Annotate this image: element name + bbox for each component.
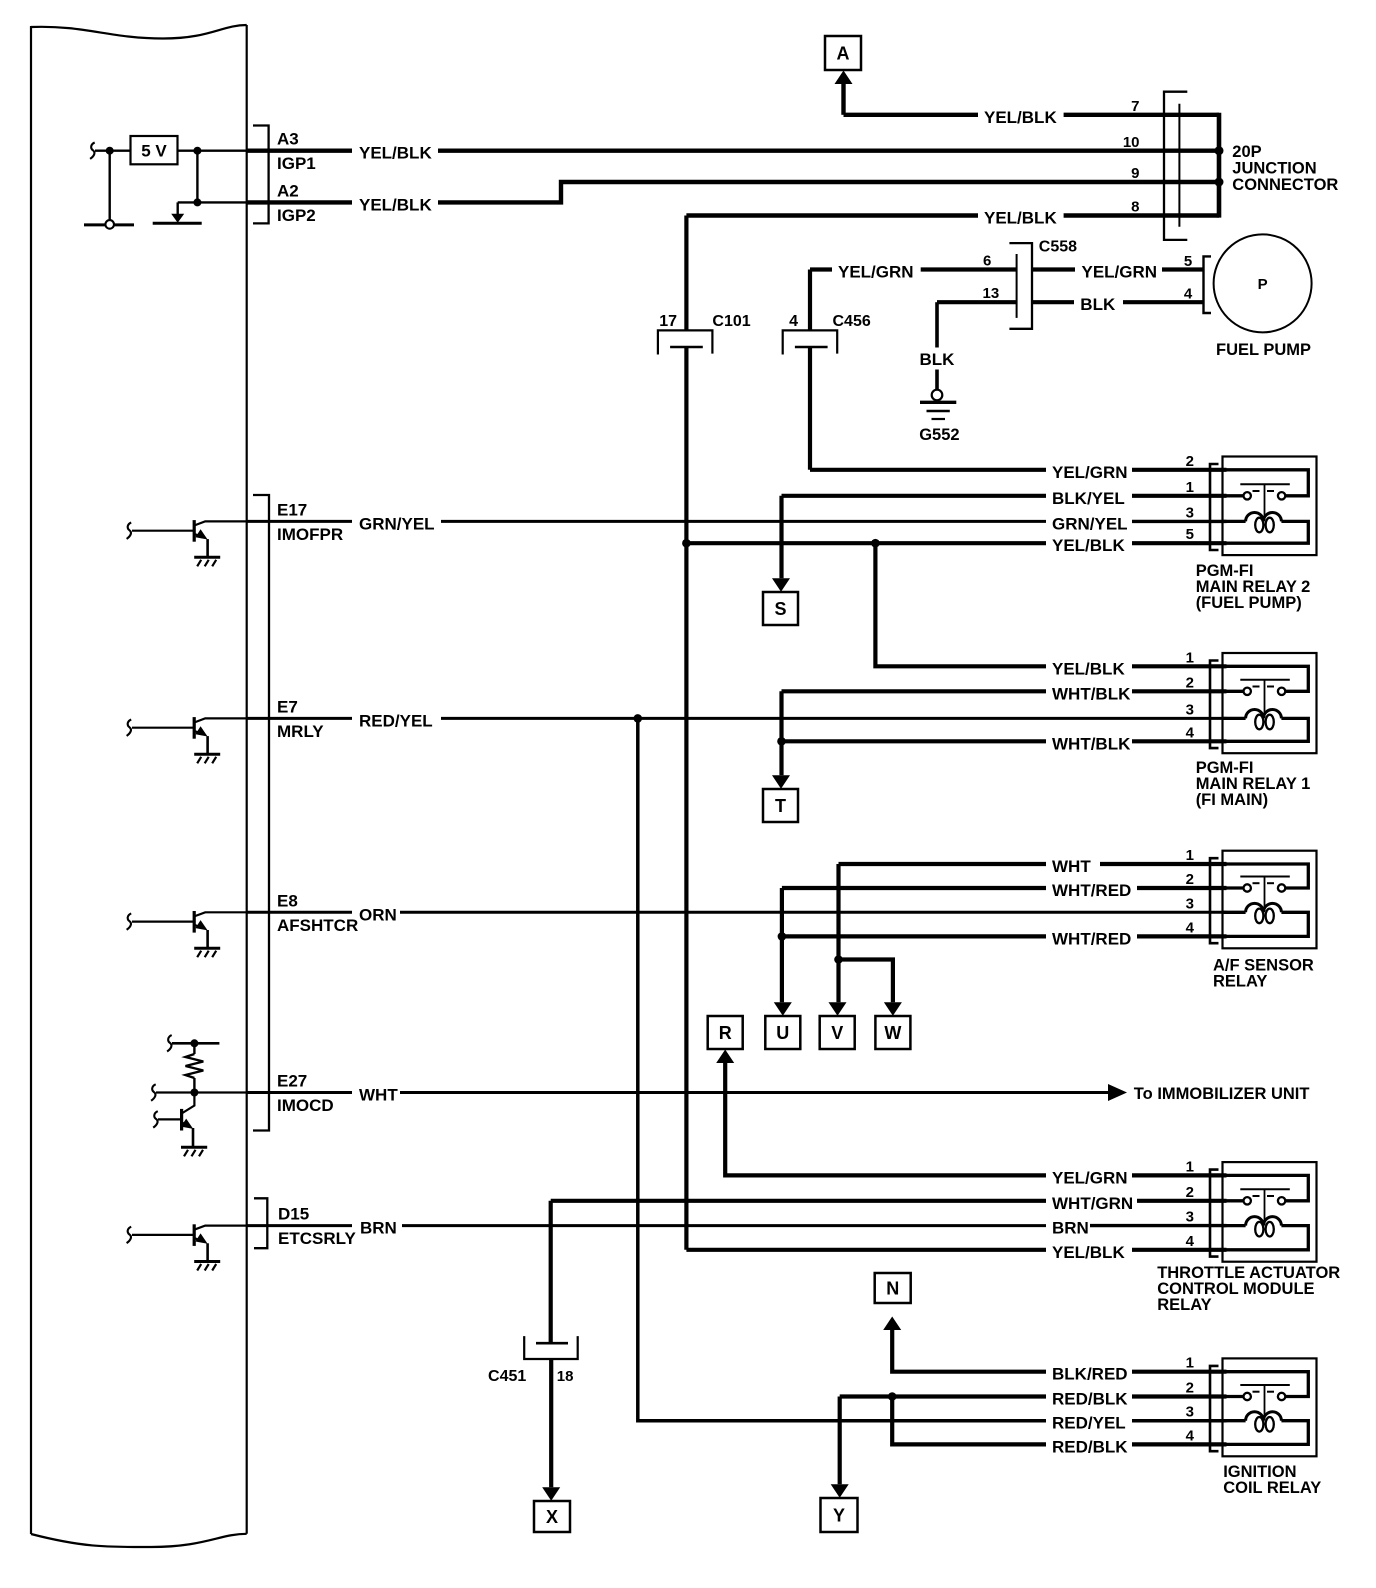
wire E27 pull-up rail — [172, 1042, 219, 1045]
svg-text:4: 4 — [1186, 724, 1195, 741]
svg-text:G552: G552 — [919, 426, 959, 444]
transistor Q4 (IMOCD driver, pin E27) — [153, 1093, 207, 1157]
svg-text:6: 6 — [983, 253, 991, 270]
svg-text:R: R — [719, 1023, 732, 1043]
svg-text:4: 4 — [1186, 919, 1195, 936]
node junction on A2 wire — [193, 198, 201, 206]
svg-text:BLK/YEL: BLK/YEL — [1052, 489, 1125, 508]
svg-text:WHT: WHT — [1052, 857, 1091, 876]
wire BLK C558 to fuel pump pin 4 — [1032, 295, 1204, 314]
svg-text:4: 4 — [789, 313, 798, 330]
svg-text:4: 4 — [1186, 1427, 1195, 1444]
relay IGNITION COIL RELAY — [1186, 1355, 1322, 1497]
wire drop RED/BLK to ref Y — [838, 1397, 842, 1485]
svg-text:MRLY: MRLY — [277, 722, 324, 741]
svg-text:17: 17 — [659, 313, 677, 330]
svg-text:WHT/BLK: WHT/BLK — [1052, 734, 1131, 753]
wire RED/BLK ignition pin 4 (label) — [1052, 1437, 1227, 1456]
svg-text:4: 4 — [1184, 286, 1193, 303]
svg-text:BLK: BLK — [920, 350, 956, 369]
transistor Q5 (ETCSRLY driver, pin D15) — [127, 1224, 248, 1270]
svg-text:10: 10 — [1123, 134, 1140, 151]
svg-text:X: X — [546, 1507, 558, 1527]
wire drop to ground 2 — [176, 202, 178, 216]
ref box R — [708, 1016, 743, 1049]
wire YEL/BLK (pin 8) from C101 column — [686, 209, 1219, 228]
svg-text:2: 2 — [1186, 674, 1194, 691]
svg-text:E17: E17 — [277, 500, 307, 519]
svg-text:18: 18 — [557, 1368, 574, 1385]
svg-text:20P: 20P — [1232, 143, 1261, 161]
wire YEL/GRN to C558 pin 6 — [810, 263, 1017, 282]
relay THROTTLE ACTUATOR CONTROL MODULE RELAY — [1157, 1158, 1340, 1314]
svg-text:WHT/GRN: WHT/GRN — [1052, 1194, 1133, 1213]
svg-text:8: 8 — [1131, 199, 1139, 216]
svg-text:E8: E8 — [277, 891, 298, 910]
svg-text:GRN/YEL: GRN/YEL — [1052, 514, 1128, 533]
svg-text:U: U — [776, 1023, 789, 1043]
svg-text:T: T — [775, 796, 786, 816]
relay PGM-FI MAIN RELAY 1 (FI MAIN) — [1186, 649, 1317, 809]
svg-text:ETCSRLY: ETCSRLY — [278, 1229, 356, 1248]
node bus pin 10 — [1215, 146, 1224, 155]
pin number 9 — [1131, 165, 1139, 182]
svg-text:5: 5 — [1186, 526, 1194, 543]
svg-text:RED/YEL: RED/YEL — [1052, 1414, 1126, 1433]
20P junction connector symbol — [1164, 92, 1187, 240]
pin E7 / MRLY label — [277, 697, 324, 741]
svg-text:To IMMOBILIZER UNIT: To IMMOBILIZER UNIT — [1134, 1085, 1310, 1103]
svg-text:9: 9 — [1131, 165, 1139, 182]
svg-text:3: 3 — [1186, 504, 1194, 521]
svg-text:YEL/BLK: YEL/BLK — [359, 144, 432, 163]
svg-text:CONNECTOR: CONNECTOR — [1232, 176, 1338, 194]
svg-text:WHT/BLK: WHT/BLK — [1052, 684, 1131, 703]
pin number 6 — [983, 253, 991, 270]
wire break hook (5V feed) — [90, 143, 95, 159]
pin E8 / AFSHTCR label — [277, 891, 358, 935]
node junction on A/F pin4 wire — [778, 932, 787, 941]
svg-text:E7: E7 — [277, 697, 298, 716]
svg-text:RELAY: RELAY — [1213, 972, 1267, 990]
wire GRN/YEL pin E17 to relay2 pin 3 — [247, 514, 1227, 533]
wire break hook (E27 pull-up rail) — [167, 1035, 172, 1051]
node junction left of 5V — [106, 147, 114, 155]
connector bracket pins A3/A2 — [253, 126, 269, 224]
wire ORN pin E8 to A/F relay pin 3 — [247, 905, 1227, 924]
svg-text:1: 1 — [1186, 1158, 1194, 1175]
svg-text:C558: C558 — [1039, 238, 1077, 255]
wire C456 column down — [808, 347, 812, 470]
arrow down into X — [542, 1487, 560, 1501]
svg-text:3: 3 — [1186, 701, 1194, 718]
svg-text:A3: A3 — [277, 130, 299, 149]
ground G552 — [919, 390, 959, 444]
ref box U — [765, 1016, 800, 1049]
node junction relay2 pin5 / relay1 pin1 branch — [871, 539, 880, 548]
arrow down into Y — [831, 1484, 849, 1498]
svg-text:BRN: BRN — [1052, 1219, 1089, 1238]
svg-text:YEL/BLK: YEL/BLK — [1052, 1243, 1125, 1262]
ref box S — [763, 592, 798, 625]
arrow onto ground 2 — [171, 214, 184, 223]
node junction right of 5V — [193, 147, 201, 155]
pin number 10 — [1123, 134, 1140, 151]
node junction C101 column / relay2 pin5 — [682, 539, 691, 548]
wire A2 YEL/BLK (pin 9) with jog — [247, 182, 1219, 214]
wire C101 column (pin8 down to throttle relay pin4) — [684, 216, 688, 1250]
svg-text:WHT/RED: WHT/RED — [1052, 929, 1131, 948]
svg-text:BLK/RED: BLK/RED — [1052, 1365, 1128, 1384]
wire drop to ref S — [779, 496, 783, 579]
node junction on relay1 pin4 wire — [777, 737, 786, 746]
svg-text:IGP2: IGP2 — [277, 206, 316, 225]
svg-text:BLK: BLK — [1080, 295, 1116, 314]
wire A2 internal — [178, 201, 248, 203]
resistor R1 (IMOCD pull-up) — [186, 1043, 204, 1092]
svg-text:RED/BLK: RED/BLK — [1052, 1390, 1128, 1409]
transistor Q2 (MRLY driver, pin E7) — [127, 717, 248, 763]
svg-text:YEL/BLK: YEL/BLK — [1052, 536, 1125, 555]
fuel pump motor P — [1214, 234, 1312, 332]
pin number 8 — [1131, 199, 1139, 216]
node junction on pull-up rail — [190, 1039, 198, 1047]
wire WHT/BLK to relay1 pin 2 — [782, 684, 1227, 703]
wire 5V feed — [95, 149, 131, 151]
wire YEL/BLK relay1 pin 1 (label) — [1052, 659, 1227, 678]
node junction RED/YEL branch — [634, 714, 643, 723]
svg-text:S: S — [774, 599, 786, 619]
svg-text:IMOFPR: IMOFPR — [277, 525, 343, 544]
arrow down into U — [774, 1002, 792, 1016]
svg-text:7: 7 — [1131, 98, 1139, 115]
wire drop WHT to V — [836, 864, 840, 1002]
wire break hook (E27 pin wire) — [151, 1084, 156, 1100]
svg-text:YEL/BLK: YEL/BLK — [359, 195, 432, 214]
svg-text:1: 1 — [1186, 649, 1194, 666]
svg-text:YEL/GRN: YEL/GRN — [1052, 1168, 1128, 1187]
wire YEL/GRN C558 to fuel pump pin 5 — [1032, 263, 1204, 282]
wire YEL/BLK C101-column to throttle relay pin 4 — [686, 1243, 1226, 1262]
arrow up into A — [835, 71, 853, 85]
wire YEL/BLK to relay2 pin 5 — [686, 536, 1226, 555]
svg-text:2: 2 — [1186, 1380, 1194, 1397]
arrow to immobilizer — [1108, 1084, 1127, 1101]
svg-text:2: 2 — [1186, 1184, 1194, 1201]
connector C451 (in-line, pin 18) — [488, 1336, 578, 1385]
ECM/PCM body outline (torn-edge box) — [31, 25, 247, 1547]
svg-text:3: 3 — [1186, 895, 1194, 912]
svg-text:P: P — [1258, 276, 1268, 293]
wire ref N to ignition relay pin 1 BLK/RED — [892, 1330, 1226, 1384]
wire WHT/GRN drop to C451 — [549, 1201, 553, 1343]
wire to ref A YEL/BLK (pin 7) — [844, 83, 1220, 127]
svg-text:JUNCTION: JUNCTION — [1232, 160, 1316, 178]
wire WHT/RED to A/F relay pin 2 — [782, 881, 1227, 900]
svg-text:IGP1: IGP1 — [277, 154, 316, 173]
wire WHT/GRN to throttle relay pin 2 — [551, 1194, 1227, 1213]
wire WHT/RED to A/F relay pin 4 — [782, 929, 1227, 948]
svg-text:5: 5 — [1184, 253, 1192, 270]
wire RED/BLK to ignition relay pin 2 — [840, 1390, 1227, 1409]
wire BLK drop to G552 — [920, 302, 956, 390]
ref box Y — [821, 1498, 858, 1532]
svg-text:1: 1 — [1186, 847, 1194, 864]
svg-text:(FUEL PUMP): (FUEL PUMP) — [1196, 594, 1302, 612]
svg-text:IMOCD: IMOCD — [277, 1096, 334, 1115]
svg-text:FUEL PUMP: FUEL PUMP — [1216, 341, 1311, 359]
ref box W — [875, 1016, 910, 1049]
pin number 4 (fuel pump) — [1184, 286, 1193, 303]
label To IMMOBILIZER UNIT — [1134, 1085, 1310, 1103]
svg-text:1: 1 — [1186, 1355, 1194, 1372]
pin A3 / IGP1 label — [277, 130, 316, 174]
node bus pin 9 — [1215, 178, 1224, 187]
5 V regulator box — [131, 136, 178, 164]
svg-text:YEL/GRN: YEL/GRN — [838, 263, 914, 282]
ref box N — [875, 1273, 911, 1303]
ground rail 1 with open circle — [84, 220, 134, 229]
ref box T — [763, 789, 798, 822]
wire BLK to C558 pin 13 — [937, 300, 1017, 304]
wire A3 YEL/BLK (pin 10) — [247, 144, 1219, 163]
label FUEL PUMP — [1216, 341, 1311, 359]
connector bracket pins E17-E27 — [253, 495, 269, 1131]
transistor Q3 (AFSHTCR driver, pin E8) — [127, 911, 248, 957]
wire branch relay2pin5 to relay1 pin1 — [875, 543, 1046, 666]
svg-text:(FI MAIN): (FI MAIN) — [1196, 791, 1268, 809]
relay A/F SENSOR RELAY — [1186, 847, 1317, 990]
svg-text:3: 3 — [1186, 1404, 1194, 1421]
fuel pump connector bracket — [1204, 256, 1212, 313]
wire BRN pin D15 to throttle relay pin 3 — [247, 1219, 1227, 1238]
wire RED/YEL to ignition relay pin 3 — [638, 718, 1227, 1432]
svg-text:RED/BLK: RED/BLK — [1052, 1437, 1128, 1456]
transistor Q1 (IMOFPR driver, pin E17) — [127, 520, 248, 566]
ref box X — [534, 1501, 570, 1532]
svg-text:E27: E27 — [277, 1072, 307, 1091]
arrow down into T — [772, 775, 790, 789]
wire branch to W — [839, 960, 893, 1003]
label 20P JUNCTION CONNECTOR — [1232, 143, 1338, 194]
wire WHT pin E27 to immobilizer — [247, 1086, 1109, 1105]
wire BLK/YEL to relay2 pin 1 — [782, 489, 1227, 508]
svg-text:N: N — [886, 1279, 899, 1299]
svg-text:13: 13 — [983, 285, 1000, 302]
wire RED/YEL pin E7 to relay1 pin 3 — [247, 711, 1227, 730]
arrow down into W — [884, 1002, 902, 1016]
pin E27 / IMOCD label — [277, 1072, 334, 1116]
wire join ignition pins 2 and 4 — [892, 1397, 1046, 1445]
svg-text:Y: Y — [833, 1506, 845, 1526]
20P junction bus — [1217, 113, 1222, 218]
svg-text:YEL/BLK: YEL/BLK — [984, 209, 1057, 228]
svg-text:WHT/RED: WHT/RED — [1052, 881, 1131, 900]
svg-text:YEL/BLK: YEL/BLK — [1052, 659, 1125, 678]
svg-text:COIL RELAY: COIL RELAY — [1223, 1479, 1321, 1497]
ref box V — [820, 1016, 855, 1049]
svg-text:YEL/GRN: YEL/GRN — [1052, 463, 1128, 482]
svg-text:RELAY: RELAY — [1157, 1296, 1211, 1314]
svg-text:A: A — [837, 44, 850, 64]
connector bracket pin D15 — [254, 1198, 267, 1248]
connector C456 (in-line, pin 4) — [783, 313, 871, 355]
node junction V/W branch — [834, 955, 843, 964]
relay PGM-FI MAIN RELAY 2 (FUEL PUMP) — [1186, 453, 1317, 612]
svg-text:YEL/GRN: YEL/GRN — [1082, 263, 1158, 282]
pin D15 / ETCSRLY label — [278, 1205, 356, 1249]
wire ref R to throttle relay pin 1 — [725, 1063, 1226, 1188]
svg-text:2: 2 — [1186, 453, 1194, 470]
wire drop WHT/RED to U — [780, 888, 784, 1002]
arrow up into N — [883, 1317, 901, 1331]
pin E17 / IMOFPR label — [277, 500, 343, 544]
svg-text:W: W — [884, 1023, 901, 1043]
wire 5V output to pin A3 — [178, 149, 248, 151]
svg-text:A2: A2 — [277, 181, 299, 200]
svg-text:2: 2 — [1186, 871, 1194, 888]
connector C101 (in-line, pin 17) — [658, 313, 751, 355]
wire C451 to ref X — [549, 1359, 553, 1487]
svg-text:YEL/BLK: YEL/BLK — [984, 108, 1057, 127]
wire C456 column up — [808, 270, 812, 331]
wire drop to ground 1 — [108, 151, 110, 221]
svg-text:ORN: ORN — [359, 905, 397, 924]
ground rail 2 — [153, 222, 202, 225]
svg-text:RED/YEL: RED/YEL — [359, 711, 433, 730]
svg-text:V: V — [831, 1023, 843, 1043]
node junction RED/BLK pins 2-4 — [888, 1392, 897, 1401]
pin number 5 — [1184, 253, 1192, 270]
svg-text:D15: D15 — [278, 1205, 309, 1224]
wire drop relay1 pin2 to ref T — [779, 691, 783, 775]
arrow down into V — [829, 1002, 847, 1016]
svg-text:GRN/YEL: GRN/YEL — [359, 514, 435, 533]
pin number 13 — [983, 285, 1000, 302]
wire WHT to A/F relay pin 1 — [839, 857, 1227, 876]
svg-text:C456: C456 — [833, 313, 871, 330]
wire WHT/BLK to relay1 pin 4 — [782, 734, 1227, 753]
svg-text:C101: C101 — [712, 313, 750, 330]
wire drop 5V output to IGP2 node — [196, 151, 198, 203]
pin number 7 — [1131, 98, 1139, 115]
svg-text:BRN: BRN — [360, 1219, 397, 1238]
wire E27 internal — [156, 1091, 248, 1093]
wire YEL/GRN to relay2 pin 2 — [810, 463, 1227, 482]
ref box A — [825, 36, 861, 70]
arrow down into S — [772, 578, 790, 592]
connector C558 — [1009, 238, 1077, 328]
svg-text:C451: C451 — [488, 1368, 526, 1385]
pin A2 / IGP2 label — [277, 181, 316, 225]
svg-text:WHT: WHT — [359, 1086, 398, 1105]
svg-text:AFSHTCR: AFSHTCR — [277, 916, 358, 935]
arrow up into R — [716, 1050, 734, 1064]
svg-text:3: 3 — [1186, 1209, 1194, 1226]
svg-text:4: 4 — [1186, 1233, 1195, 1250]
svg-text:1: 1 — [1186, 479, 1194, 496]
svg-text:5 V: 5 V — [141, 142, 167, 161]
node junction on E27 wire — [190, 1089, 198, 1097]
